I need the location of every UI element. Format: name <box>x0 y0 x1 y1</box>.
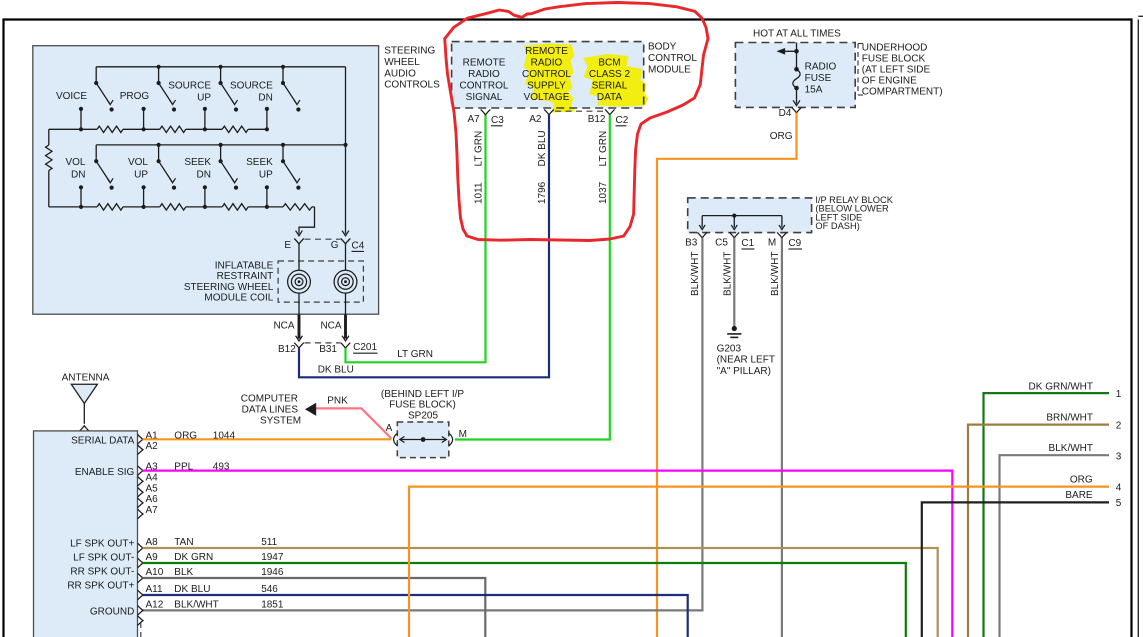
svg-text:VOLTAGE: VOLTAGE <box>524 92 570 103</box>
pin A12 connector <box>138 606 143 616</box>
svg-text:B3: B3 <box>685 238 698 249</box>
svg-text:OF DASH): OF DASH) <box>815 221 859 231</box>
svg-text:2: 2 <box>1116 421 1122 432</box>
svg-text:(AT LEFT SIDE: (AT LEFT SIDE <box>862 65 931 76</box>
svg-text:RESTRAINT: RESTRAINT <box>217 271 274 282</box>
node: row2 tap SEEK/UP <box>265 185 269 209</box>
switch S1 arm (VOICE) <box>94 67 114 112</box>
label: COMPUTER DATA LINES SYSTEM <box>241 394 301 427</box>
svg-text:CONTROL: CONTROL <box>460 81 509 92</box>
fuse feed wire <box>777 43 799 70</box>
label: (BEHIND LEFT I/P FUSE BLOCK) SP205 <box>381 389 464 422</box>
svg-text:RADIO: RADIO <box>805 61 837 72</box>
svg-text:BLK/WHT: BLK/WHT <box>770 252 781 296</box>
node: row2 tap SEEK/DN <box>203 185 207 209</box>
svg-text:DN: DN <box>197 170 211 181</box>
I/P relay block box <box>688 198 812 233</box>
svg-text:SIGNAL: SIGNAL <box>466 92 503 103</box>
svg-text:A6: A6 <box>146 494 159 505</box>
svg-text:VOL: VOL <box>128 157 148 168</box>
svg-text:A12: A12 <box>146 599 164 610</box>
svg-text:LT GRN: LT GRN <box>598 131 609 167</box>
svg-text:DK BLU: DK BLU <box>537 130 548 166</box>
wire: row2 resistor ladder <box>49 206 315 208</box>
wire: row1 common bus <box>96 66 345 68</box>
svg-text:RR SPK OUT-: RR SPK OUT- <box>70 567 134 578</box>
svg-text:(BEHIND LEFT I/P: (BEHIND LEFT I/P <box>381 389 464 400</box>
pin A2 connector <box>138 445 143 455</box>
radio connector box <box>34 431 138 637</box>
svg-text:WHEEL: WHEEL <box>384 57 420 68</box>
svg-text:1044: 1044 <box>213 430 236 441</box>
label C3 <box>491 115 504 126</box>
svg-text:BODY: BODY <box>648 42 677 53</box>
labels DK BLU 546 <box>174 584 278 595</box>
svg-text:FUSE: FUSE <box>805 73 832 84</box>
svg-text:SERIAL DATA: SERIAL DATA <box>71 436 134 447</box>
fuse: RADIO FUSE 15A <box>793 67 800 106</box>
wire: to pin G <box>345 67 347 234</box>
svg-text:FUSE BLOCK: FUSE BLOCK <box>862 54 926 65</box>
svg-text:PNK: PNK <box>327 396 348 407</box>
BCM box dashed border <box>452 42 644 108</box>
label VOL DN <box>65 157 85 181</box>
label C1 <box>741 238 754 249</box>
svg-text:RR SPK OUT+: RR SPK OUT+ <box>67 581 134 592</box>
pin D4 connector <box>792 107 802 112</box>
pin B12 connector (C201) <box>294 343 304 348</box>
wire: LT GRN 1037 vertical label <box>598 131 609 204</box>
svg-text:BLK/WHT: BLK/WHT <box>690 252 701 296</box>
svg-text:CONTROL: CONTROL <box>522 69 571 80</box>
svg-text:LF SPK OUT-: LF SPK OUT- <box>73 553 134 564</box>
wire: LT GRN B31(C201) to BCM A7 <box>346 115 486 362</box>
label: BODY CONTROL MODULE <box>648 42 697 76</box>
svg-text:1946: 1946 <box>261 567 284 578</box>
vertical labels BLK/WHT x3 <box>690 252 781 296</box>
svg-text:PROG: PROG <box>120 91 150 102</box>
svg-text:SEEK: SEEK <box>184 157 211 168</box>
label: STEERING WHEEL AUDIO CONTROLS <box>384 46 440 91</box>
connector C201 dashed link <box>305 342 341 344</box>
svg-text:B12: B12 <box>278 344 296 355</box>
ground G203 <box>727 326 741 338</box>
wire: left ladder chain <box>48 129 50 207</box>
antenna connector at radio <box>80 426 90 431</box>
label: I/P RELAY BLOCK (BELOW LOWER LEFT SIDE OF DASH) <box>815 195 893 231</box>
svg-text:15A: 15A <box>805 85 823 96</box>
svg-text:1037: 1037 <box>598 181 609 204</box>
svg-text:NCA: NCA <box>320 320 341 331</box>
wire: BLK 1946 A10 <box>143 578 486 637</box>
svg-text:A10: A10 <box>146 567 164 578</box>
node: row1 tap PROG <box>142 107 146 132</box>
svg-text:A8: A8 <box>146 537 159 548</box>
wire: row1 resistor ladder <box>49 128 267 130</box>
svg-text:VOL: VOL <box>65 157 85 168</box>
svg-text:C9: C9 <box>788 238 801 249</box>
svg-text:UP: UP <box>197 92 211 103</box>
steering wheel audio controls module box <box>33 46 379 315</box>
svg-text:A2: A2 <box>529 114 542 125</box>
resistor R4 (left vertical) <box>46 145 52 171</box>
resistor R3 <box>222 126 248 132</box>
svg-text:ENABLE SIG: ENABLE SIG <box>75 467 135 478</box>
svg-text:"A" PILLAR): "A" PILLAR) <box>717 366 771 377</box>
node: row1 bus junctions <box>157 65 286 69</box>
svg-text:REMOTE: REMOTE <box>525 46 568 57</box>
label: REMOTE RADIO CONTROL SIGNAL <box>460 58 509 104</box>
wire: to pin E <box>299 207 315 234</box>
svg-text:4: 4 <box>1116 482 1122 493</box>
label: REMOTE RADIO CONTROL SUPPLY VOLTAGE <box>522 46 571 103</box>
svg-text:C3: C3 <box>491 115 504 126</box>
svg-text:VOICE: VOICE <box>56 91 87 102</box>
pin A13 connector <box>138 616 143 626</box>
label SEEK UP <box>246 157 273 181</box>
svg-text:UNDERHOOD: UNDERHOOD <box>862 43 928 54</box>
svg-text:ORG: ORG <box>770 131 793 142</box>
wire: BLK/WHT B3 to radio A12 (1851) <box>143 238 703 611</box>
svg-text:A7: A7 <box>467 114 480 125</box>
label C9 <box>788 238 802 249</box>
wire: DK BLU 546 A11 <box>143 595 688 637</box>
svg-text:DK BLU: DK BLU <box>174 584 210 595</box>
off-page arrow (computer data lines) <box>306 403 316 415</box>
svg-text:A: A <box>386 423 393 434</box>
switch S5 arm (VOL/DN) <box>94 145 114 190</box>
pin C5 connector (C1) <box>730 232 740 237</box>
underhood fuse block box <box>735 43 855 108</box>
wire: DK GRN 1947 A9 <box>143 563 906 637</box>
pin B3 connector <box>697 232 707 237</box>
svg-text:C2: C2 <box>616 115 629 126</box>
pin A1 connector <box>138 435 143 445</box>
wire 2: BRN/WHT <box>968 425 1109 637</box>
wire: LT GRN 1037 SP205-M to BCM B12 <box>455 115 610 440</box>
resistor R8 <box>283 204 312 210</box>
svg-text:COMPUTER: COMPUTER <box>241 394 298 405</box>
wire: BLK/WHT C5 to ground G203 <box>733 238 735 326</box>
svg-text:C5: C5 <box>715 238 728 249</box>
wire: PPL 493 A3 to right/down <box>143 471 953 637</box>
labels TAN 511 <box>174 537 277 548</box>
svg-text:SERIAL: SERIAL <box>592 81 628 92</box>
switch S4 arm (SOURCE/DN) <box>281 67 301 112</box>
svg-text:BARE: BARE <box>1065 490 1093 501</box>
resistor R7 <box>222 204 248 210</box>
label: UNDERHOOD FUSE BLOCK (AT LEFT SIDE OF ENGINE COMPARTMENT) <box>858 43 943 98</box>
svg-text:3: 3 <box>1116 451 1122 462</box>
svg-text:STEERING WHEEL: STEERING WHEEL <box>184 282 274 293</box>
svg-text:RADIO: RADIO <box>531 58 563 69</box>
pin A2 connector <box>544 109 554 114</box>
wire: coil L2 to B31 (NCA) <box>342 293 349 341</box>
svg-text:ORG: ORG <box>174 430 197 441</box>
pin B12 connector <box>605 109 615 114</box>
yellow highlight over BCM CLASS 2 SERIAL DATA <box>583 54 649 107</box>
svg-text:SYSTEM: SYSTEM <box>260 416 301 427</box>
labels ORG 1044 <box>174 430 235 441</box>
pin A4 connector <box>138 477 143 487</box>
svg-text:CONTROLS: CONTROLS <box>384 80 440 91</box>
pin M connector (C9) <box>777 232 787 237</box>
resistor R1 <box>97 126 123 132</box>
svg-text:1851: 1851 <box>261 599 284 610</box>
pin B31 connector (C201) <box>341 343 351 348</box>
svg-text:(NEAR LEFT: (NEAR LEFT <box>717 355 775 366</box>
label: INFLATABLE RESTRAINT STEERING WHEEL MODULE COIL <box>184 260 274 303</box>
svg-text:A7: A7 <box>146 505 159 516</box>
wire: ORG from D4 down-left to bottom <box>657 113 797 637</box>
wire 4: ORG <box>409 487 1109 637</box>
label C201 <box>353 342 377 353</box>
label SEEK DN <box>184 157 211 181</box>
node: row2 bus junctions <box>157 143 348 147</box>
label C4 <box>352 240 365 251</box>
svg-text:OF ENGINE: OF ENGINE <box>862 76 917 87</box>
splice SP205 box <box>397 422 449 458</box>
resistor R2 <box>160 126 186 132</box>
pin A3 connector <box>138 466 143 476</box>
wire 3: BLK/WHT <box>1000 455 1110 637</box>
arrow to other circuits <box>777 48 785 54</box>
svg-text:STEERING: STEERING <box>384 46 435 57</box>
wire: G pin to coil L2 <box>345 244 347 271</box>
svg-text:493: 493 <box>213 462 230 473</box>
svg-text:BLK/WHT: BLK/WHT <box>1049 443 1093 454</box>
svg-text:SEEK: SEEK <box>246 157 273 168</box>
svg-text:M: M <box>768 238 776 249</box>
svg-text:C201: C201 <box>353 342 377 353</box>
antenna symbol <box>71 384 97 424</box>
pin A5 connector <box>138 488 143 498</box>
svg-text:DN: DN <box>258 92 272 103</box>
svg-text:A5: A5 <box>146 483 159 494</box>
coil L2 (spiral) <box>334 270 357 293</box>
pin A7 connector <box>481 109 491 114</box>
switch S2 arm (PROG) <box>157 67 177 112</box>
svg-text:ORG: ORG <box>1070 474 1093 485</box>
svg-text:BLK: BLK <box>174 567 193 578</box>
svg-text:511: 511 <box>261 537 277 548</box>
svg-text:5: 5 <box>1116 498 1122 509</box>
wire: coil L1 to B12 (NCA) <box>296 293 303 341</box>
svg-text:546: 546 <box>261 584 278 595</box>
svg-text:CONTROL: CONTROL <box>648 53 697 64</box>
svg-text:1796: 1796 <box>537 181 548 204</box>
label: BCM CLASS 2 SERIAL DATA <box>589 58 631 104</box>
svg-text:D4: D4 <box>779 108 792 119</box>
splice terminal M <box>449 433 453 445</box>
pin A6 connector <box>138 498 143 508</box>
connector C4 dashed link <box>305 238 341 240</box>
svg-text:BRN/WHT: BRN/WHT <box>1046 413 1093 424</box>
svg-text:LT GRN: LT GRN <box>474 131 485 167</box>
svg-text:CLASS 2: CLASS 2 <box>589 69 631 80</box>
labels BLK/WHT 1851 <box>174 599 284 610</box>
pin A10 connector <box>138 573 143 583</box>
pin A8 connector <box>138 543 143 553</box>
splice internal double arrow <box>400 437 447 443</box>
switch S7 arm (SEEK/DN) <box>219 145 239 190</box>
svg-text:1011: 1011 <box>474 182 485 204</box>
node: row2 tap VOL/DN <box>79 185 83 209</box>
svg-text:FUSE BLOCK): FUSE BLOCK) <box>389 400 456 411</box>
label: G203 (NEAR LEFT "A" PILLAR) <box>717 344 775 377</box>
svg-text:SUPPLY: SUPPLY <box>527 81 566 92</box>
switch S8 arm (SEEK/UP) <box>281 145 301 190</box>
coil L1 (spiral) <box>288 270 311 293</box>
svg-text:HOT AT ALL TIMES: HOT AT ALL TIMES <box>753 28 841 39</box>
labels BLK 1946 <box>174 567 284 578</box>
node: row2 tap VOL/UP <box>142 185 146 209</box>
svg-text:AUDIO: AUDIO <box>384 68 416 79</box>
svg-text:G203: G203 <box>717 344 742 355</box>
node: row1 tap SOURCE/DN <box>265 107 269 132</box>
svg-text:C4: C4 <box>352 240 365 251</box>
red freehand annotation circling BCM <box>445 3 708 241</box>
svg-text:GROUND: GROUND <box>90 606 134 617</box>
svg-text:DATA: DATA <box>597 92 623 103</box>
svg-text:COMPARTMENT): COMPARTMENT) <box>862 87 943 98</box>
svg-text:MODULE COIL: MODULE COIL <box>204 293 273 304</box>
wire: row2 common bus <box>96 144 345 146</box>
svg-text:UP: UP <box>259 170 273 181</box>
label SOURCE UP <box>168 81 211 104</box>
wire: E pin to coil L1 <box>298 244 300 271</box>
wire: DK BLU 1796 vertical label <box>537 130 548 204</box>
svg-text:BLK/WHT: BLK/WHT <box>174 599 218 610</box>
svg-text:1947: 1947 <box>261 552 284 563</box>
pin G connector <box>341 239 351 244</box>
wire: TAN 511 A8 <box>143 548 938 637</box>
svg-text:MODULE: MODULE <box>648 65 691 76</box>
labels PPL 493 <box>174 462 230 473</box>
node: row1 tap SOURCE/UP <box>203 107 207 132</box>
svg-text:1: 1 <box>1116 389 1122 400</box>
svg-text:DK GRN/WHT: DK GRN/WHT <box>1029 381 1093 392</box>
splice terminal A <box>394 433 398 445</box>
svg-text:PPL: PPL <box>174 462 193 473</box>
svg-text:B31: B31 <box>319 344 337 355</box>
wire: relay block internal bus <box>699 214 785 230</box>
svg-text:REMOTE: REMOTE <box>463 58 506 69</box>
svg-text:NCA: NCA <box>273 320 294 331</box>
pin A11 connector <box>138 590 143 600</box>
resistor R6 <box>160 204 186 210</box>
wire: ORG 1044 A1 to SP205 <box>143 438 392 440</box>
switch S6 arm (VOL/UP) <box>157 145 177 190</box>
wire: LT GRN 1011 vertical label <box>474 131 485 204</box>
svg-text:SOURCE: SOURCE <box>168 81 211 92</box>
connector C2 dashed link <box>555 110 606 112</box>
label C2 <box>616 115 629 126</box>
wire 1: DK GRN/WHT <box>984 393 1110 637</box>
svg-text:SOURCE: SOURCE <box>230 81 273 92</box>
svg-text:G: G <box>331 240 339 251</box>
svg-text:DN: DN <box>71 170 85 181</box>
svg-text:A11: A11 <box>146 584 163 595</box>
svg-text:ANTENNA: ANTENNA <box>62 373 110 384</box>
yellow highlight over REMOTE RADIO CONTROL SUPPLY VOLTAGE <box>524 44 576 113</box>
svg-text:UP: UP <box>134 170 148 181</box>
svg-text:B12: B12 <box>588 114 606 125</box>
svg-text:A4: A4 <box>146 472 159 483</box>
svg-text:A2: A2 <box>146 441 159 452</box>
radio box lower dashed edge <box>140 623 142 637</box>
svg-text:E: E <box>284 240 291 251</box>
resistor R5 <box>97 204 123 210</box>
svg-text:DATA LINES: DATA LINES <box>242 405 299 416</box>
svg-text:DK GRN: DK GRN <box>174 552 213 563</box>
svg-text:BLK/WHT: BLK/WHT <box>722 252 733 296</box>
pin A9 connector <box>138 558 143 568</box>
svg-text:C1: C1 <box>741 238 754 249</box>
label VOL UP <box>128 157 148 181</box>
body control module box <box>452 42 644 108</box>
svg-text:SP205: SP205 <box>408 411 438 422</box>
pin E connector <box>294 239 304 244</box>
svg-text:A9: A9 <box>146 552 159 563</box>
labels DK GRN 1947 <box>174 552 284 563</box>
wire: DK BLU B12(C201) to BCM A2 <box>299 115 549 378</box>
node: row1 tap VOICE <box>79 107 83 132</box>
svg-text:LT GRN: LT GRN <box>397 349 433 360</box>
svg-text:DK BLU: DK BLU <box>318 365 354 376</box>
pin A7 connector <box>138 509 143 519</box>
inflatable restraint steering wheel module coil box <box>278 261 363 302</box>
wire 5: BARE <box>922 502 1109 637</box>
svg-text:TAN: TAN <box>174 537 193 548</box>
wire: BLK/WHT M/C9 to bottom <box>781 238 783 637</box>
svg-text:BCM: BCM <box>598 58 620 69</box>
switch S3 arm (SOURCE/UP) <box>219 67 239 112</box>
wire: PNK to computer data lines <box>315 408 391 438</box>
label SOURCE DN <box>230 81 273 104</box>
svg-text:INFLATABLE: INFLATABLE <box>215 260 274 271</box>
svg-text:RADIO: RADIO <box>468 69 500 80</box>
svg-text:LF SPK OUT+: LF SPK OUT+ <box>70 539 134 550</box>
